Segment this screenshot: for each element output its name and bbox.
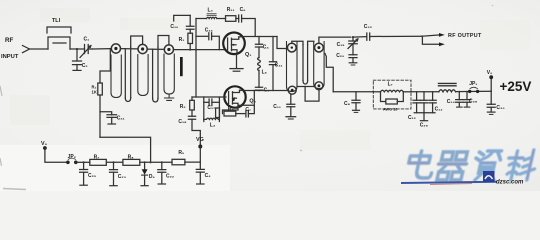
- wire Q1 drain bus: [239, 36, 277, 38]
- capacitor C24: [196, 169, 204, 184]
- capacitor C20: [349, 44, 357, 65]
- resistor R2: [190, 97, 195, 116]
- capacitor C33: [429, 92, 436, 113]
- node gate junction: [195, 49, 197, 51]
- capacitor C9: [255, 71, 262, 91]
- diode D6: [141, 162, 148, 185]
- svg-text:L₇: L₇: [388, 82, 393, 88]
- node C19 junction: [352, 36, 354, 38]
- capacitor C18: [188, 116, 200, 146]
- svg-text:Q₂: Q₂: [249, 99, 256, 105]
- svg-text:R₇: R₇: [94, 154, 100, 160]
- capacitor C28: [463, 92, 470, 108]
- resistor R5: [172, 159, 185, 165]
- capacitor C25: [80, 162, 88, 185]
- svg-text:JP₂: JP₂: [68, 154, 76, 160]
- svg-text:L₄: L₄: [210, 123, 216, 129]
- svg-text:L₅: L₅: [262, 70, 268, 76]
- resistor R8: [123, 159, 140, 165]
- svg-text:C₁: C₁: [84, 37, 90, 43]
- inductor L6 choke with core: [439, 83, 492, 91]
- svg-text:L₃: L₃: [208, 8, 214, 14]
- capacitor C31: [269, 37, 276, 91]
- node D6 tap: [144, 161, 146, 163]
- transistor Q2: [224, 86, 245, 107]
- wire R7 to R8: [106, 161, 123, 163]
- coax transformer T1 tube B: [138, 55, 148, 96]
- svg-text:V₀: V₀: [41, 141, 48, 147]
- node C23 tap: [112, 161, 114, 163]
- svg-text:TLI: TLI: [52, 18, 61, 24]
- svg-text:C₄: C₄: [205, 173, 212, 179]
- svg-text:C₂₂: C₂₂: [166, 173, 174, 179]
- svg-text:C₁₄: C₁₄: [447, 99, 456, 105]
- wire bracket T2 left: [292, 41, 303, 44]
- wire bracket pair2 to circle C: [158, 36, 169, 48]
- svg-text:C₃₁: C₃₁: [275, 63, 283, 69]
- capacitor C11: [286, 94, 296, 119]
- svg-text:VG: VG: [196, 137, 204, 143]
- coax T2 circle bottom1: [288, 86, 296, 94]
- watermark 电器资料: [405, 150, 539, 180]
- svg-text:C₃₀: C₃₀: [496, 105, 504, 111]
- svg-text:C₂₉: C₂₉: [420, 123, 428, 129]
- coax transformer T1 tube A: [111, 55, 121, 98]
- capacitor C4: [255, 37, 262, 58]
- capacitor C30: [487, 91, 495, 114]
- wire input arrow: [23, 46, 30, 53]
- capacitor C19 (variable): [348, 37, 358, 48]
- svg-text:C₁₁: C₁₁: [273, 104, 281, 110]
- inductor L5: [258, 58, 261, 71]
- capacitor C22: [158, 162, 166, 184]
- wire circleA to circleB: [121, 48, 139, 50]
- ground capacitor trio: [414, 113, 435, 121]
- watermark logo: [483, 171, 495, 182]
- coax end circle A: [111, 44, 120, 53]
- svg-text:dzsc.com: dzsc.com: [496, 180, 524, 186]
- node junction C2 tap: [76, 48, 78, 50]
- capacitor C17 tank: [204, 97, 220, 122]
- svg-text:C₂: C₂: [82, 63, 88, 69]
- node R1 gate junction: [189, 49, 191, 51]
- svg-text:C₈: C₈: [344, 101, 351, 107]
- svg-text:C₂₈: C₂₈: [469, 99, 478, 105]
- resistor damping L7: [381, 92, 404, 104]
- wire to C32: [353, 36, 366, 38]
- arrow RF output 1: [439, 33, 445, 37]
- svg-text:AWG 16: AWG 16: [383, 108, 397, 112]
- coax transformer T1 tube C: [164, 54, 174, 94]
- svg-text:C₂₃: C₂₃: [118, 174, 127, 180]
- resistor small tank: [216, 108, 220, 118]
- coax end circle B: [138, 44, 147, 53]
- resistor R4: [223, 108, 245, 116]
- wire drain bus to output balun: [277, 37, 287, 49]
- wire power feed tap: [325, 54, 333, 92]
- node RF INPUT label: [1, 37, 19, 60]
- svg-text:C₃₂: C₃₂: [364, 24, 372, 30]
- arrow RF output 2: [439, 42, 445, 46]
- wire bracket T2 right: [308, 41, 314, 44]
- inductor L4: [204, 118, 220, 119]
- svg-text:C₁₃: C₁₃: [435, 106, 444, 112]
- inductor L3 with core: [196, 14, 226, 19]
- svg-text:C₆: C₆: [240, 7, 246, 13]
- wire R8 to R5: [140, 161, 172, 163]
- capacitor C23: [110, 162, 118, 185]
- coax T2 circle bottom2: [315, 82, 323, 90]
- wire gate riser: [195, 19, 197, 98]
- wire circleC to Q1 gate: [174, 49, 226, 51]
- wire T2 bottom loop: [297, 87, 319, 102]
- jumper JP1: [468, 87, 479, 93]
- inductor L7: [373, 90, 411, 92]
- coax transformer T2 tube 2: [314, 42, 324, 89]
- node bias riser tap: [150, 161, 152, 163]
- svg-text:D₆: D₆: [149, 174, 155, 180]
- svg-text:C₂₁: C₂₁: [117, 116, 125, 122]
- watermark underline: [401, 182, 497, 185]
- wire bias jog to rail: [100, 137, 151, 162]
- wire box to choke: [411, 91, 439, 93]
- wire power line: [333, 91, 373, 93]
- node fork junction: [421, 35, 423, 37]
- node V0 left: [43, 146, 67, 162]
- capacitor C14: [456, 92, 463, 108]
- wire Q2 gate: [192, 96, 226, 98]
- capacitor C16: [196, 33, 219, 50]
- svg-text:INPUT: INPUT: [1, 54, 19, 60]
- svg-text:R₄: R₄: [228, 107, 235, 113]
- capacitor C32: [367, 33, 422, 40]
- svg-text:C₂₀: C₂₀: [336, 53, 344, 59]
- svg-text:C₄: C₄: [263, 45, 270, 51]
- wire C1 to balun: [93, 48, 112, 50]
- capacitor C12: [413, 92, 420, 113]
- ground tube C: [165, 94, 174, 100]
- wire TL1 to C1: [70, 48, 85, 50]
- svg-text:+25V: +25V: [500, 79, 532, 94]
- wire Q2 drain bus: [240, 89, 289, 91]
- ground Q1 source: [230, 54, 243, 71]
- filter box dashed L7: [373, 80, 411, 109]
- node C25 tap: [83, 161, 85, 163]
- resistor R11: [226, 16, 239, 22]
- svg-text:1K: 1K: [92, 90, 97, 95]
- wire output fork: [422, 35, 440, 44]
- jumper JP2: [66, 158, 78, 164]
- wire RF output line: [319, 37, 351, 43]
- node VG: [198, 145, 202, 170]
- capacitor C8: [352, 92, 360, 113]
- wire circleB to circleC: [147, 48, 164, 50]
- wire pair 2: [153, 47, 158, 102]
- wire input to TL1: [30, 48, 49, 50]
- wire R5 to VG riser: [185, 161, 200, 163]
- node V0 right: [489, 75, 493, 91]
- svg-text:C₇: C₇: [245, 107, 251, 113]
- coax T2 circle top1: [287, 43, 296, 52]
- ferrite bar: [180, 57, 183, 76]
- coax T2 circle top2: [315, 43, 324, 52]
- svg-text:C₁₇: C₁₇: [207, 105, 215, 111]
- svg-text:R₁₁: R₁₁: [227, 7, 235, 13]
- svg-text:C₁₂: C₁₂: [408, 115, 416, 121]
- wire rail JP2 to R7: [76, 161, 90, 163]
- resistor R1: [188, 33, 193, 49]
- svg-text:R₁: R₁: [179, 37, 185, 43]
- capacitor C21: [100, 112, 117, 124]
- svg-text:RF: RF: [5, 37, 13, 44]
- transmission line TL1: [47, 27, 71, 49]
- capacitor C29: [420, 92, 427, 113]
- svg-text:R₈: R₈: [128, 154, 135, 160]
- node C22 tap: [161, 161, 163, 163]
- resistor R3 1K tap: [98, 49, 111, 138]
- svg-text:Q₁: Q₁: [245, 52, 252, 58]
- wire bracket pair1 to circle B: [131, 36, 143, 47]
- svg-text:C₁₈: C₁₈: [178, 119, 187, 125]
- coax transformer T2 tube 1: [287, 42, 298, 92]
- svg-text:RF OUTPUT: RF OUTPUT: [448, 33, 482, 39]
- svg-text:C₁₀: C₁₀: [170, 24, 178, 30]
- svg-text:R₅: R₅: [178, 150, 185, 156]
- wire pair 1: [125, 47, 130, 102]
- capacitor C10: [174, 15, 194, 33]
- resistor R7: [90, 159, 107, 165]
- svg-text:C₁₆: C₁₆: [205, 27, 213, 33]
- coax end circle C: [164, 45, 173, 54]
- capacitor C2: [73, 49, 82, 70]
- capacitor C7: [238, 91, 254, 117]
- svg-text:C₂₅: C₂₅: [88, 173, 97, 179]
- capacitor C6: [239, 15, 256, 36]
- capacitor C1 (variable): [80, 45, 93, 58]
- transistor Q1: [223, 33, 245, 55]
- scan noise marks: [0, 5, 493, 190]
- svg-text:C₁₉: C₁₉: [337, 42, 345, 48]
- wire pair T2: [303, 45, 308, 85]
- svg-text:R₂: R₂: [180, 104, 186, 110]
- svg-text:V₀: V₀: [487, 70, 493, 76]
- label R3 1K: [92, 85, 97, 95]
- svg-text:JP₁: JP₁: [469, 81, 477, 87]
